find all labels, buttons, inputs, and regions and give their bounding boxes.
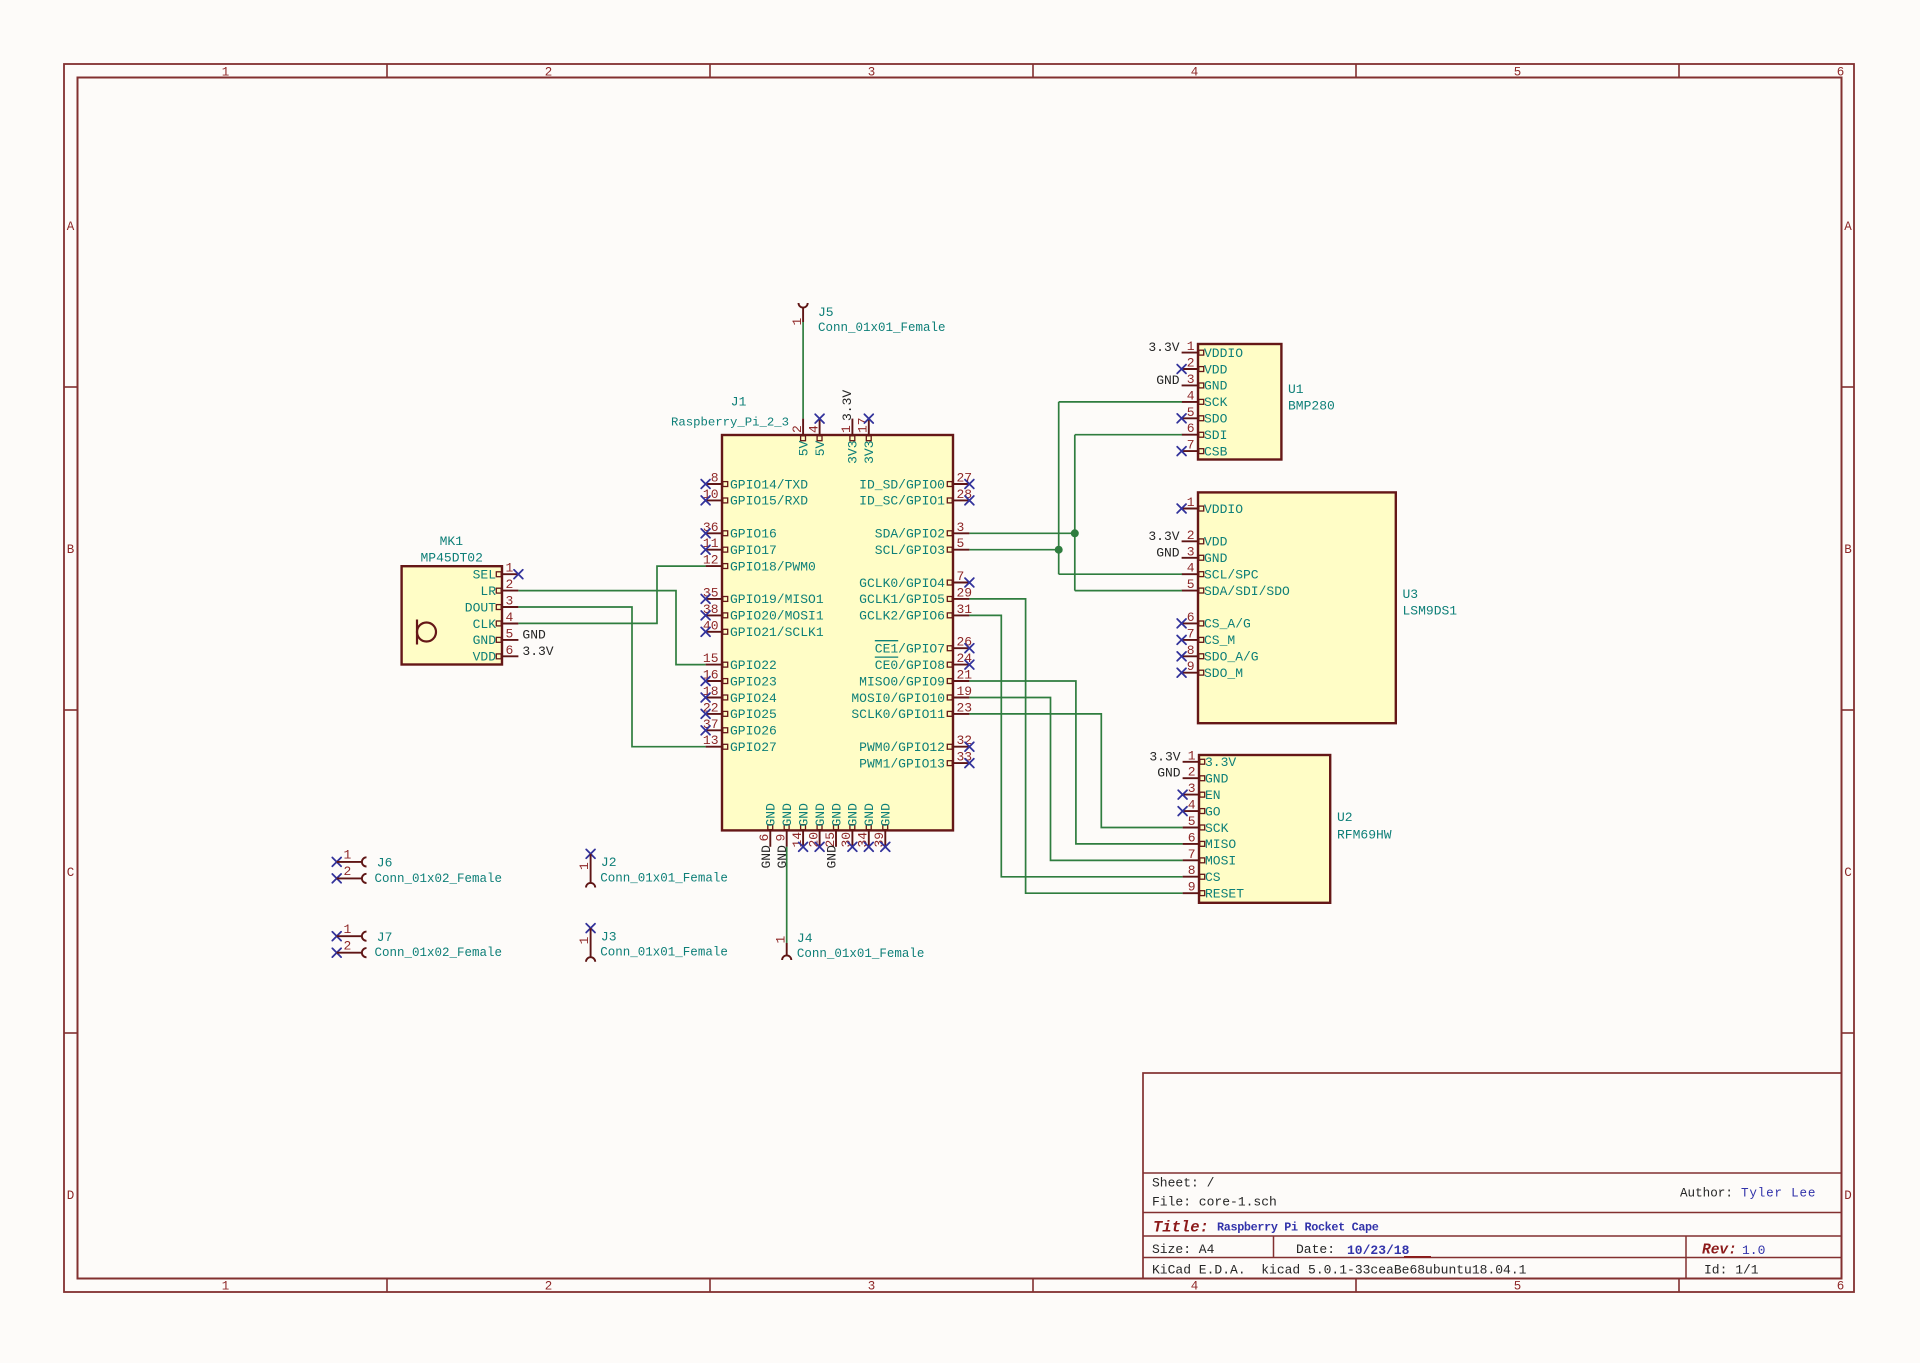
svg-text:GND: GND <box>846 803 861 827</box>
svg-text:CS: CS <box>1205 870 1221 885</box>
svg-text:VDDIO: VDDIO <box>1204 502 1243 517</box>
svg-text:BMP280: BMP280 <box>1288 399 1335 414</box>
svg-text:Tyler Lee: Tyler Lee <box>1741 1187 1816 1201</box>
svg-text:SCK: SCK <box>1205 821 1229 836</box>
svg-text:2: 2 <box>1188 765 1196 780</box>
svg-text:SDI: SDI <box>1204 428 1227 443</box>
svg-text:GND: GND <box>764 803 779 827</box>
svg-text:5V: 5V <box>796 440 811 456</box>
svg-text:LSM9DS1: LSM9DS1 <box>1403 604 1458 619</box>
svg-text:GND: GND <box>829 803 844 827</box>
svg-text:1: 1 <box>506 561 514 576</box>
svg-text:VDD: VDD <box>473 650 497 665</box>
svg-text:GND: GND <box>473 633 497 648</box>
svg-text:6: 6 <box>1837 1280 1845 1294</box>
svg-text:2: 2 <box>545 1280 553 1294</box>
svg-text:File: core-1.sch: File: core-1.sch <box>1152 1195 1277 1210</box>
svg-text:SCLK0/GPIO11: SCLK0/GPIO11 <box>851 707 945 722</box>
svg-text:1: 1 <box>577 862 592 870</box>
svg-text:Rev:: Rev: <box>1702 1243 1737 1259</box>
svg-text:5: 5 <box>1187 405 1195 420</box>
svg-text:CE0/GPIO8: CE0/GPIO8 <box>875 658 945 673</box>
svg-text:VDDIO: VDDIO <box>1204 346 1243 361</box>
svg-text:6: 6 <box>1187 610 1195 625</box>
svg-text:EN: EN <box>1205 788 1221 803</box>
svg-text:GND: GND <box>775 845 790 869</box>
svg-text:7: 7 <box>1187 626 1195 641</box>
svg-text:9: 9 <box>1188 880 1196 895</box>
svg-text:Raspberry_Pi_2_3: Raspberry_Pi_2_3 <box>671 416 789 430</box>
svg-text:6: 6 <box>1188 830 1196 845</box>
svg-text:5: 5 <box>1188 814 1196 829</box>
svg-text:A: A <box>67 220 75 234</box>
svg-text:J2: J2 <box>601 855 617 870</box>
svg-text:U3: U3 <box>1403 587 1419 602</box>
svg-text:3V3: 3V3 <box>862 440 877 463</box>
svg-text:U2: U2 <box>1337 810 1353 825</box>
svg-text:GPIO23: GPIO23 <box>730 674 777 689</box>
svg-text:8: 8 <box>1188 863 1196 878</box>
svg-text:SDA/SDI/SDO: SDA/SDI/SDO <box>1204 584 1290 599</box>
svg-text:MISO0/GPIO9: MISO0/GPIO9 <box>859 674 945 689</box>
svg-text:GPIO26: GPIO26 <box>730 724 777 739</box>
svg-text:PWM1/GPIO13: PWM1/GPIO13 <box>859 756 945 771</box>
svg-text:3: 3 <box>1187 372 1195 387</box>
svg-text:10/23/18: 10/23/18 <box>1347 1243 1410 1258</box>
svg-text:J7: J7 <box>377 930 393 945</box>
svg-text:GCLK1/GPIO5: GCLK1/GPIO5 <box>859 592 945 607</box>
svg-text:GPIO16: GPIO16 <box>730 527 777 542</box>
svg-text:1.0: 1.0 <box>1742 1243 1765 1258</box>
svg-text:GND: GND <box>1156 373 1180 388</box>
svg-text:4: 4 <box>1191 66 1199 80</box>
svg-text:RESET: RESET <box>1205 887 1244 902</box>
svg-text:Conn_01x02_Female: Conn_01x02_Female <box>375 872 503 886</box>
svg-text:B: B <box>1844 543 1852 557</box>
svg-text:GPIO27: GPIO27 <box>730 740 777 755</box>
svg-text:5: 5 <box>957 536 965 551</box>
svg-text:1: 1 <box>343 848 351 863</box>
svg-text:3.3V: 3.3V <box>1148 340 1179 355</box>
svg-text:1: 1 <box>773 936 788 944</box>
svg-text:J5: J5 <box>818 305 834 320</box>
svg-text:A: A <box>1844 220 1852 234</box>
svg-text:3.3V: 3.3V <box>522 644 553 659</box>
svg-text:SCL/GPIO3: SCL/GPIO3 <box>875 543 945 558</box>
svg-text:Author:: Author: <box>1680 1187 1733 1201</box>
svg-text:CE1/GPIO7: CE1/GPIO7 <box>875 642 945 657</box>
svg-text:1: 1 <box>1188 748 1196 763</box>
svg-text:GPIO24: GPIO24 <box>730 691 777 706</box>
svg-text:LR: LR <box>480 584 496 599</box>
svg-text:J1: J1 <box>731 395 747 410</box>
svg-text:9: 9 <box>774 834 789 842</box>
svg-text:3V3: 3V3 <box>846 440 861 463</box>
svg-text:GPIO25: GPIO25 <box>730 707 777 722</box>
svg-text:SCL/SPC: SCL/SPC <box>1204 568 1259 583</box>
svg-text:7: 7 <box>1188 847 1196 862</box>
svg-text:GND: GND <box>813 803 828 827</box>
svg-text:MK1: MK1 <box>440 534 464 549</box>
svg-text:MISO: MISO <box>1205 837 1236 852</box>
svg-text:GND: GND <box>862 803 877 827</box>
svg-text:4: 4 <box>506 610 514 625</box>
svg-text:C: C <box>1844 866 1852 880</box>
svg-text:CS_A/G: CS_A/G <box>1204 617 1251 632</box>
svg-text:GCLK2/GPIO6: GCLK2/GPIO6 <box>859 609 945 624</box>
svg-text:KiCad E.D.A. kicad 5.0.1-33ce: KiCad E.D.A. kicad 5.0.1-33ceaBe68ubuntu… <box>1152 1263 1527 1278</box>
svg-text:2: 2 <box>790 425 805 433</box>
svg-text:J4: J4 <box>797 931 813 946</box>
svg-text:GCLK0/GPIO4: GCLK0/GPIO4 <box>859 576 945 591</box>
svg-text:4: 4 <box>1187 561 1195 576</box>
svg-text:5: 5 <box>1514 66 1522 80</box>
svg-text:3: 3 <box>1188 781 1196 796</box>
svg-text:3.3V: 3.3V <box>1148 529 1179 544</box>
svg-text:MOSI0/GPIO10: MOSI0/GPIO10 <box>851 691 945 706</box>
svg-text:Conn_01x02_Female: Conn_01x02_Female <box>375 946 503 960</box>
svg-text:4: 4 <box>1191 1280 1199 1294</box>
svg-text:GND: GND <box>879 803 894 827</box>
svg-text:Title:: Title: <box>1153 1219 1209 1237</box>
svg-text:3.3V: 3.3V <box>1205 755 1236 770</box>
svg-text:VDD: VDD <box>1204 535 1228 550</box>
svg-text:7: 7 <box>957 569 965 584</box>
svg-text:GPIO22: GPIO22 <box>730 658 777 673</box>
svg-text:1: 1 <box>343 922 351 937</box>
svg-text:GND: GND <box>1156 545 1180 560</box>
svg-text:GPIO17: GPIO17 <box>730 543 777 558</box>
svg-text:3: 3 <box>868 1280 876 1294</box>
svg-text:GPIO14/TXD: GPIO14/TXD <box>730 477 808 492</box>
svg-text:9: 9 <box>1187 659 1195 674</box>
svg-text:1: 1 <box>1187 339 1195 354</box>
svg-text:3: 3 <box>957 520 965 535</box>
svg-text:2: 2 <box>1187 528 1195 543</box>
svg-text:GPIO21/SCLK1: GPIO21/SCLK1 <box>730 625 824 640</box>
svg-text:Id: 1/1: Id: 1/1 <box>1704 1263 1759 1278</box>
svg-text:MOSI: MOSI <box>1205 854 1236 869</box>
svg-text:2: 2 <box>506 577 514 592</box>
svg-text:4: 4 <box>1188 798 1196 813</box>
svg-text:GPIO19/MISO1: GPIO19/MISO1 <box>730 592 824 607</box>
svg-text:Sheet: /: Sheet: / <box>1152 1176 1215 1191</box>
svg-text:J6: J6 <box>377 856 393 871</box>
svg-text:3: 3 <box>1187 544 1195 559</box>
svg-text:CLK: CLK <box>473 617 497 632</box>
svg-text:Conn_01x01_Female: Conn_01x01_Female <box>818 321 946 335</box>
svg-text:GND: GND <box>759 845 774 869</box>
svg-text:GPIO20/MOSI1: GPIO20/MOSI1 <box>730 609 824 624</box>
svg-text:SDO: SDO <box>1204 412 1228 427</box>
svg-text:GND: GND <box>1204 551 1228 566</box>
svg-text:6: 6 <box>506 643 514 658</box>
svg-text:2: 2 <box>343 864 351 879</box>
svg-text:1: 1 <box>222 1280 230 1294</box>
svg-text:MP45DT02: MP45DT02 <box>420 551 482 566</box>
svg-text:GND: GND <box>522 627 546 642</box>
svg-text:SEL: SEL <box>473 568 496 583</box>
svg-text:4: 4 <box>1187 388 1195 403</box>
svg-text:PWM0/GPIO12: PWM0/GPIO12 <box>859 740 945 755</box>
svg-text:2: 2 <box>1187 356 1195 371</box>
svg-text:GO: GO <box>1205 804 1221 819</box>
svg-text:6: 6 <box>757 834 772 842</box>
svg-text:Raspberry Pi Rocket Cape: Raspberry Pi Rocket Cape <box>1217 1221 1379 1235</box>
svg-text:J3: J3 <box>601 929 617 944</box>
svg-text:6: 6 <box>1837 66 1845 80</box>
svg-text:GND: GND <box>1205 772 1229 787</box>
svg-text:SDA/GPIO2: SDA/GPIO2 <box>875 527 945 542</box>
svg-text:VDD: VDD <box>1204 362 1228 377</box>
svg-text:SDO_M: SDO_M <box>1204 666 1243 681</box>
svg-text:2: 2 <box>545 66 553 80</box>
svg-text:3.3V: 3.3V <box>840 390 855 421</box>
svg-text:Date:: Date: <box>1296 1242 1335 1257</box>
svg-text:8: 8 <box>1187 643 1195 658</box>
svg-text:GPIO15/RXD: GPIO15/RXD <box>730 494 808 509</box>
svg-text:3: 3 <box>506 594 514 609</box>
svg-text:D: D <box>67 1189 75 1203</box>
svg-text:7: 7 <box>1187 438 1195 453</box>
svg-text:B: B <box>67 543 75 557</box>
svg-text:3.3V: 3.3V <box>1149 749 1180 764</box>
svg-text:1: 1 <box>577 936 592 944</box>
svg-text:Conn_01x01_Female: Conn_01x01_Female <box>797 947 925 961</box>
svg-text:C: C <box>67 866 75 880</box>
svg-text:RFM69HW: RFM69HW <box>1337 828 1392 843</box>
svg-text:4: 4 <box>806 425 821 433</box>
svg-text:1: 1 <box>839 425 854 433</box>
svg-text:ID_SD/GPIO0: ID_SD/GPIO0 <box>859 477 945 492</box>
svg-text:2: 2 <box>343 938 351 953</box>
svg-text:3: 3 <box>868 66 876 80</box>
svg-text:SDO_A/G: SDO_A/G <box>1204 650 1259 665</box>
svg-text:6: 6 <box>1187 421 1195 436</box>
svg-text:ID_SC/GPIO1: ID_SC/GPIO1 <box>859 494 945 509</box>
svg-text:CSB: CSB <box>1204 444 1228 459</box>
svg-text:Conn_01x01_Female: Conn_01x01_Female <box>600 946 728 960</box>
svg-text:GND: GND <box>1204 379 1228 394</box>
svg-text:1: 1 <box>1187 495 1195 510</box>
svg-text:DOUT: DOUT <box>465 600 496 615</box>
svg-text:CS_M: CS_M <box>1204 633 1235 648</box>
svg-text:5: 5 <box>1187 577 1195 592</box>
svg-text:Size: A4: Size: A4 <box>1152 1242 1215 1257</box>
svg-text:5: 5 <box>506 626 514 641</box>
svg-text:1: 1 <box>790 318 805 326</box>
svg-text:5: 5 <box>1514 1280 1522 1294</box>
svg-text:1: 1 <box>222 66 230 80</box>
svg-text:GND: GND <box>1157 766 1181 781</box>
svg-text:GPIO18/PWM0: GPIO18/PWM0 <box>730 559 816 574</box>
svg-text:GND: GND <box>796 803 811 827</box>
svg-text:D: D <box>1844 1189 1852 1203</box>
svg-text:Conn_01x01_Female: Conn_01x01_Female <box>600 871 728 885</box>
svg-text:SCK: SCK <box>1204 395 1228 410</box>
svg-text:GND: GND <box>780 803 795 827</box>
svg-text:GND: GND <box>825 845 840 869</box>
svg-text:8: 8 <box>711 471 719 486</box>
svg-text:5V: 5V <box>813 440 828 456</box>
svg-text:U1: U1 <box>1288 382 1304 397</box>
